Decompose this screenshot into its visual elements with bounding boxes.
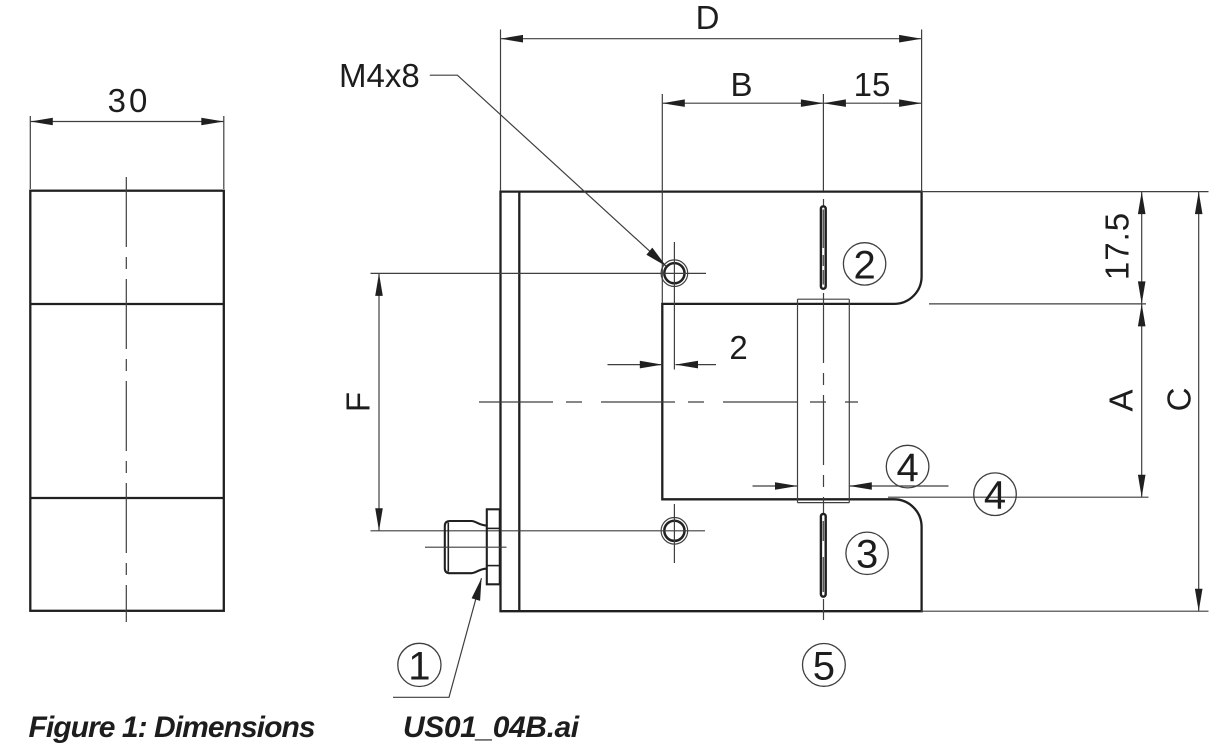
dim 30 extension left xyxy=(29,116,31,189)
dim 2 arrow left xyxy=(640,361,663,369)
connector cap edge xyxy=(447,523,449,572)
window bottom edge xyxy=(798,502,850,504)
side view outline xyxy=(30,191,224,611)
callout 1 leader arrow xyxy=(472,578,482,601)
callout 4a circle xyxy=(886,445,929,488)
front view body outline xyxy=(501,192,922,612)
callout 2 circle xyxy=(843,243,885,285)
dim B extension left xyxy=(661,94,663,303)
dim 4 tail left xyxy=(753,485,798,487)
M4 hole lower outer xyxy=(661,518,688,545)
M4 hole lower crosshair horizontal / F bottom extension xyxy=(371,530,706,532)
dim C arrow down xyxy=(1195,589,1203,612)
svg-text:A: A xyxy=(1103,389,1140,411)
M4 hole upper crosshair horizontal / F top extension xyxy=(371,272,707,274)
dim B arrow left xyxy=(662,99,685,107)
connector barrel xyxy=(445,521,487,573)
dim B line xyxy=(662,102,823,104)
callout 5 circle xyxy=(803,644,846,687)
svg-text:F: F xyxy=(340,392,377,412)
front face inner line xyxy=(518,192,520,612)
upper slot xyxy=(821,206,826,288)
callout 1 leader xyxy=(393,578,482,697)
dim C arrow up xyxy=(1195,192,1203,215)
M4 hole lower crosshair vertical xyxy=(673,504,675,563)
dim 2 arrow right xyxy=(676,361,699,369)
connector flange line lower xyxy=(487,565,500,567)
dim A bottom extension xyxy=(888,496,1149,498)
connector flange line upper xyxy=(487,527,500,529)
window right edge xyxy=(848,299,850,502)
dim C line xyxy=(1198,192,1200,612)
M4 hole upper outer xyxy=(661,260,688,287)
dim 17.5 arrow down xyxy=(1138,281,1146,304)
window left edge xyxy=(797,299,799,502)
connector axis line xyxy=(425,546,507,548)
svg-text:1: 1 xyxy=(408,644,430,688)
svg-text:D: D xyxy=(696,0,720,36)
dim F arrow up xyxy=(375,273,383,296)
side view divider upper xyxy=(30,303,224,305)
side view vertical centerline xyxy=(125,177,127,622)
svg-text:C: C xyxy=(1161,388,1198,412)
M4x8 leader arrow xyxy=(646,248,666,267)
optical axis vertical centerline xyxy=(823,199,825,620)
dim B arrow right xyxy=(801,99,824,107)
dim A arrow down xyxy=(1138,475,1146,498)
svg-text:US01_04B.ai: US01_04B.ai xyxy=(403,711,580,744)
callout 3 circle xyxy=(846,532,888,574)
dim 17.5 line xyxy=(1141,192,1143,304)
dim A line xyxy=(1141,304,1143,497)
dim 2 tail right xyxy=(676,364,717,366)
main horizontal centerline xyxy=(479,401,858,403)
dim A arrow up xyxy=(1138,304,1146,327)
dim 30 extension right xyxy=(223,116,225,189)
dim D arrow left xyxy=(501,35,524,43)
dim D extension right xyxy=(921,30,923,192)
svg-text:15: 15 xyxy=(854,66,891,103)
dim 17.5 arrow up xyxy=(1138,192,1146,215)
svg-text:4: 4 xyxy=(984,474,1006,518)
svg-text:3: 3 xyxy=(856,533,878,577)
M4x8 leader xyxy=(430,75,666,266)
M4 hole lower inner xyxy=(664,521,684,541)
dim D extension left xyxy=(500,30,502,192)
callout 4b circle xyxy=(974,473,1017,516)
svg-text:2: 2 xyxy=(853,243,875,287)
dim C bottom extension xyxy=(921,610,1209,612)
dim B/15 shared extension xyxy=(822,94,824,191)
side view divider lower xyxy=(30,497,224,499)
dim 4 arrow left xyxy=(775,482,798,490)
dim F line xyxy=(378,273,380,530)
dim 2 tail left xyxy=(608,364,663,366)
dim 15 arrow left xyxy=(823,99,846,107)
dim 30 arrow left xyxy=(30,118,53,126)
dim F arrow down xyxy=(375,508,383,531)
dim D arrow right xyxy=(899,35,922,43)
connector flange xyxy=(487,509,500,584)
svg-text:2: 2 xyxy=(729,329,747,366)
window top edge xyxy=(798,298,850,300)
svg-text:5: 5 xyxy=(813,644,835,688)
M4 hole upper crosshair vertical xyxy=(673,242,675,370)
svg-text:17.5: 17.5 xyxy=(1099,212,1136,280)
svg-text:4: 4 xyxy=(896,446,918,490)
M4 hole upper inner xyxy=(664,263,684,283)
lower slot inner mark xyxy=(822,521,824,592)
dim 15 arrow right xyxy=(899,99,922,107)
svg-text:B: B xyxy=(730,66,752,103)
dim 15 line xyxy=(823,102,921,104)
svg-text:Figure 1: Dimensions: Figure 1: Dimensions xyxy=(29,711,315,744)
dim 17.5 mid extension xyxy=(929,303,1146,305)
dim D line xyxy=(501,38,922,40)
dim 4 tail right xyxy=(849,485,948,487)
dim 17.5 top extension xyxy=(921,191,1209,193)
dim 4 arrow right xyxy=(849,482,872,490)
dim 30 line xyxy=(30,121,224,123)
svg-text:30: 30 xyxy=(108,82,151,119)
callout 1 circle xyxy=(398,643,441,686)
upper slot inner mark xyxy=(822,210,824,285)
lower slot xyxy=(821,514,826,597)
svg-text:M4x8: M4x8 xyxy=(339,57,420,94)
dim 30 arrow right xyxy=(201,118,224,126)
